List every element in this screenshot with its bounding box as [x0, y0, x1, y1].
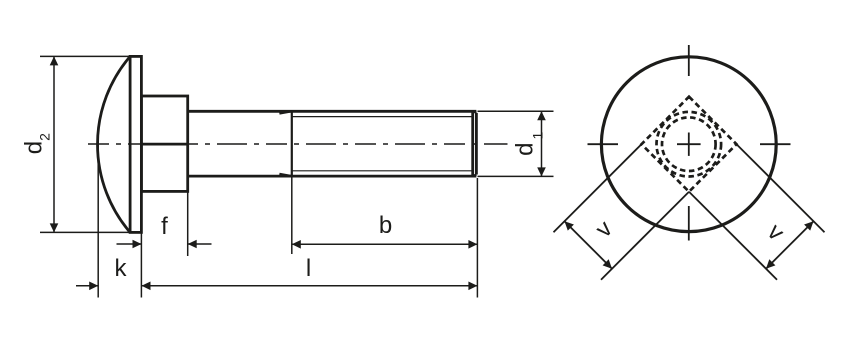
dimension line d1 [541, 111, 543, 176]
extension line k left [97, 141, 99, 298]
extension line f right [187, 192, 189, 257]
end chamfer corner top [473, 111, 477, 113]
arrowhead v right upper [804, 221, 813, 230]
extension line d1 top [478, 110, 554, 112]
bolt end face [475, 113, 478, 175]
arrowhead d1 top [537, 111, 546, 120]
center cross vertical [688, 133, 690, 156]
thread start line [291, 111, 293, 176]
dimension line v right [766, 221, 814, 269]
arrowhead l right [468, 282, 477, 291]
extension line v left lower [601, 192, 689, 280]
extension line v right lower [689, 192, 777, 280]
dimension line f left tail [117, 243, 142, 245]
bolt head face band [130, 56, 141, 232]
thread runout bottom [279, 174, 291, 176]
arrowhead d2 top [50, 56, 59, 65]
arrowhead v right lower [766, 259, 775, 268]
arrowhead b right [468, 240, 477, 249]
centerline bolt axis [88, 143, 508, 145]
end chamfer corner bottom [473, 175, 477, 177]
thread minor diameter top [292, 116, 473, 118]
dimension line v left [565, 221, 613, 269]
arrowhead v left lower [603, 259, 612, 268]
shank bottom outline [188, 175, 477, 178]
dimension line l [142, 285, 478, 287]
svg-text:b: b [379, 212, 392, 239]
extension line bolt end [476, 178, 478, 298]
front view head circle [601, 57, 776, 232]
centerline tick left [588, 143, 619, 145]
dimension line d2 [53, 56, 55, 232]
centerline tick right [760, 143, 791, 145]
extension line v right upper [737, 144, 825, 232]
extension line d1 bottom [478, 175, 554, 177]
arrowhead b left [292, 240, 301, 249]
arrowhead d1 bottom [537, 167, 546, 176]
extension line head face [140, 232, 142, 297]
thread minor diameter bottom [292, 170, 473, 172]
arrowhead f right [188, 240, 197, 249]
square neck [141, 96, 187, 191]
square neck middle edge [141, 143, 187, 146]
extension line d2 top [40, 55, 130, 57]
hidden thread minor circle [662, 117, 716, 171]
centerline tick top [688, 45, 690, 76]
thread runout top [279, 111, 291, 113]
hidden shank circle [657, 112, 722, 177]
dimension line b [292, 243, 478, 245]
center cross horizontal [677, 143, 701, 145]
svg-text:l: l [306, 255, 311, 282]
shank top outline [188, 110, 477, 113]
arrowhead l left [142, 282, 151, 291]
dimension line f right tail [188, 243, 212, 245]
hidden square neck diamond [642, 97, 737, 192]
extension line d2 bottom [40, 231, 141, 233]
centerline tick bottom [688, 206, 690, 241]
arrowhead v left upper [565, 221, 574, 230]
arrowhead f left [133, 240, 142, 249]
dimension line k tail [76, 285, 98, 287]
end chamfer line [471, 111, 474, 176]
arrowhead k [89, 282, 98, 291]
extension line v left upper [554, 144, 642, 232]
svg-text:k: k [115, 255, 128, 282]
extension line b left [291, 177, 293, 254]
arrowhead d2 bottom [50, 223, 59, 232]
bolt head dome arc [98, 56, 131, 232]
svg-text:f: f [161, 213, 168, 240]
